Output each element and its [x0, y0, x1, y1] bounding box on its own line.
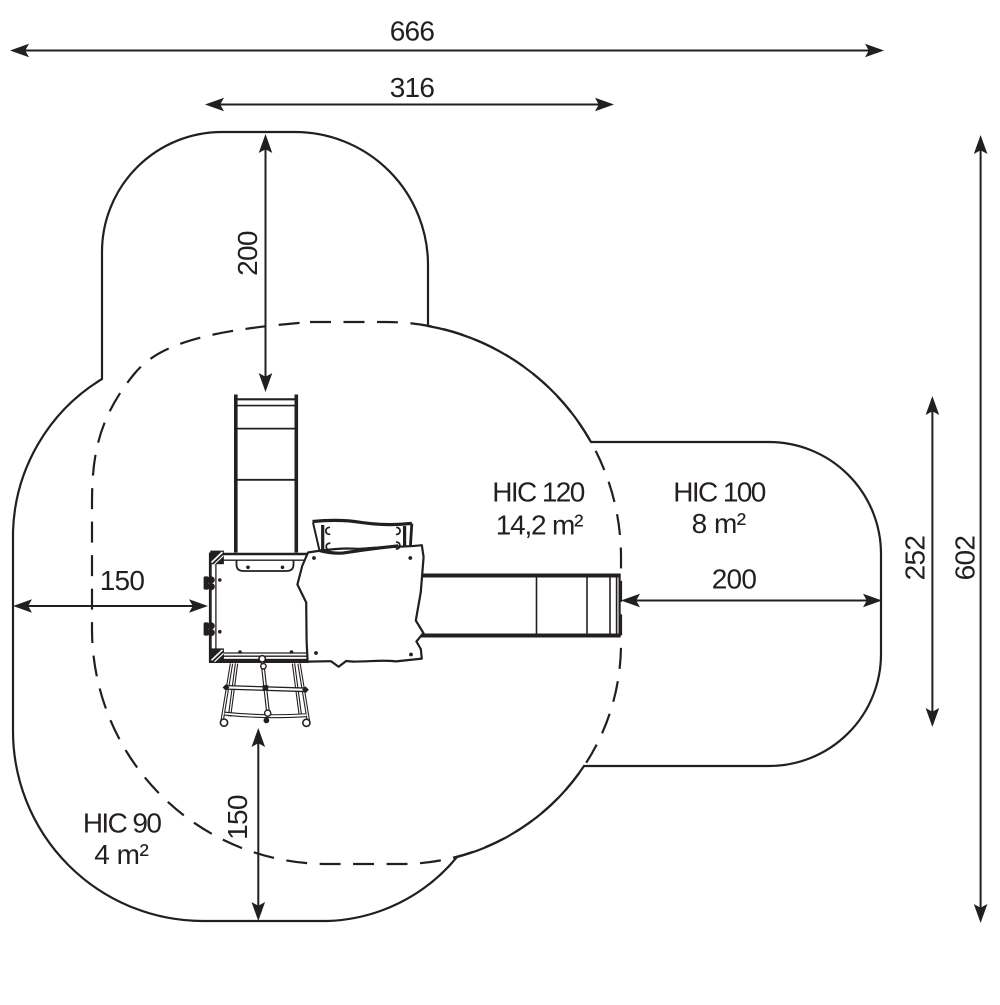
svg-text:14,2 m²: 14,2 m²	[496, 510, 583, 541]
dimension 602 vertical	[949, 135, 987, 923]
EQUIPMENT	[204, 394, 620, 726]
slide entrance arc	[237, 561, 294, 572]
left clamp lower	[204, 622, 215, 636]
svg-text:200: 200	[232, 231, 263, 276]
feet	[220, 719, 227, 726]
dimension 200 top vertical	[232, 134, 272, 392]
platform (square deck)	[204, 551, 309, 663]
svg-text:602: 602	[949, 536, 980, 581]
svg-text:HIC 120: HIC 120	[492, 477, 585, 508]
solid safety-area union outline	[13, 132, 881, 921]
svg-text:HIC 100: HIC 100	[673, 477, 766, 508]
bottom rung	[225, 714, 307, 717]
vertical chute (top)	[234, 394, 298, 554]
svg-text:HIC 90: HIC 90	[83, 808, 162, 839]
corner bracket bottom-left	[210, 648, 224, 662]
middle rung	[226, 687, 306, 689]
svg-text:200: 200	[712, 564, 757, 595]
clips	[326, 527, 330, 534]
interior dots	[218, 578, 222, 582]
svg-text:150: 150	[100, 565, 145, 596]
dimension 252 vertical	[899, 396, 939, 727]
dashed HIC120 zone oval	[92, 322, 621, 864]
roof canopy band	[313, 520, 412, 553]
dimension 666	[10, 16, 884, 58]
dimension 150 left	[13, 565, 208, 613]
canvas fabric panel	[297, 545, 423, 667]
svg-text:150: 150	[222, 795, 253, 840]
slide to the right (white body)	[421, 574, 620, 638]
left clamp upper	[204, 576, 215, 590]
dimension 316	[205, 72, 614, 111]
dimension 200 right	[621, 564, 882, 608]
corner bracket top-left	[210, 551, 224, 565]
svg-text:8 m²: 8 m²	[692, 508, 746, 539]
svg-text:666: 666	[390, 16, 435, 47]
center rail	[262, 657, 269, 716]
svg-text:316: 316	[390, 72, 435, 103]
dimension 150 bottom vertical	[222, 728, 265, 921]
access ladder (below platform)	[220, 656, 310, 727]
legs	[222, 664, 309, 722]
svg-text:4 m²: 4 m²	[94, 839, 148, 870]
svg-text:252: 252	[899, 536, 930, 581]
